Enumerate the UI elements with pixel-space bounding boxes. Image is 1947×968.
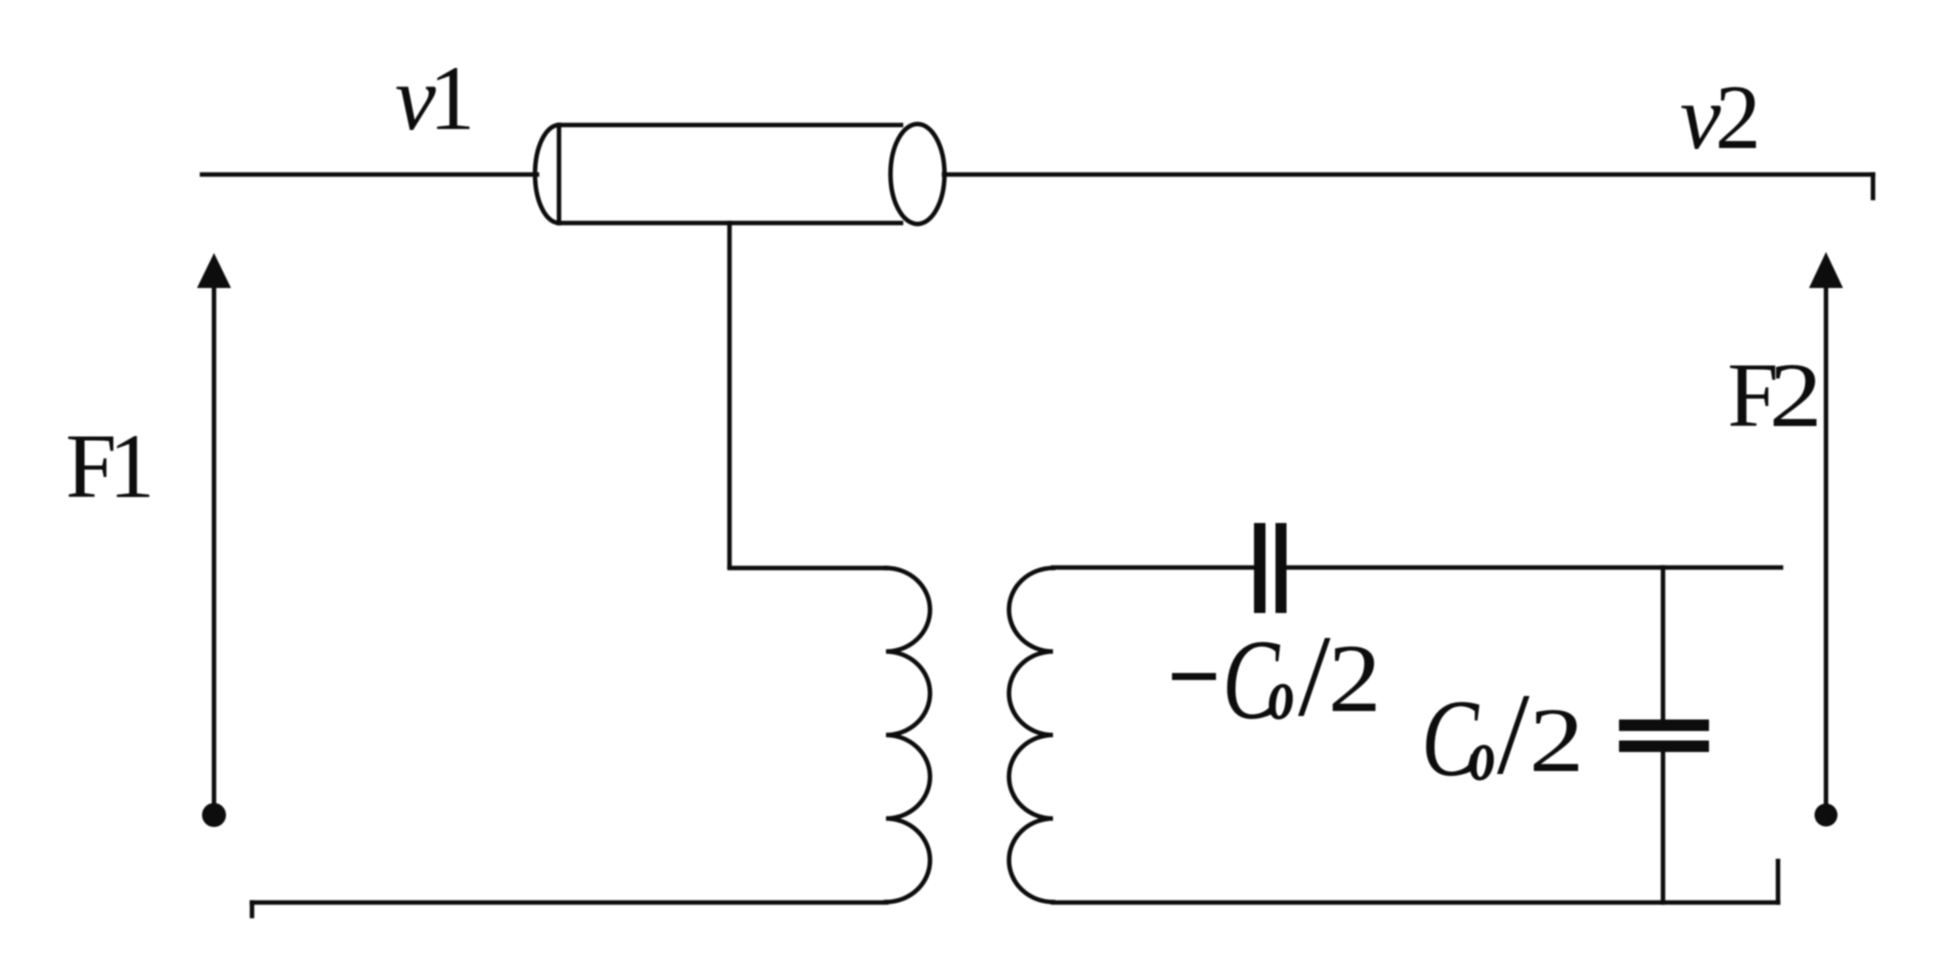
svg-text:2: 2 [1328,625,1381,732]
svg-text:2: 2 [1715,66,1761,168]
svg-text:1: 1 [109,415,155,517]
svg-text:/: / [1497,670,1530,799]
svg-text:o: o [1268,654,1295,735]
svg-text:2: 2 [1529,689,1584,791]
svg-text:1: 1 [429,47,475,149]
svg-text:o: o [1469,715,1496,796]
svg-text:2: 2 [1769,344,1822,446]
svg-text:/: / [1298,612,1331,741]
